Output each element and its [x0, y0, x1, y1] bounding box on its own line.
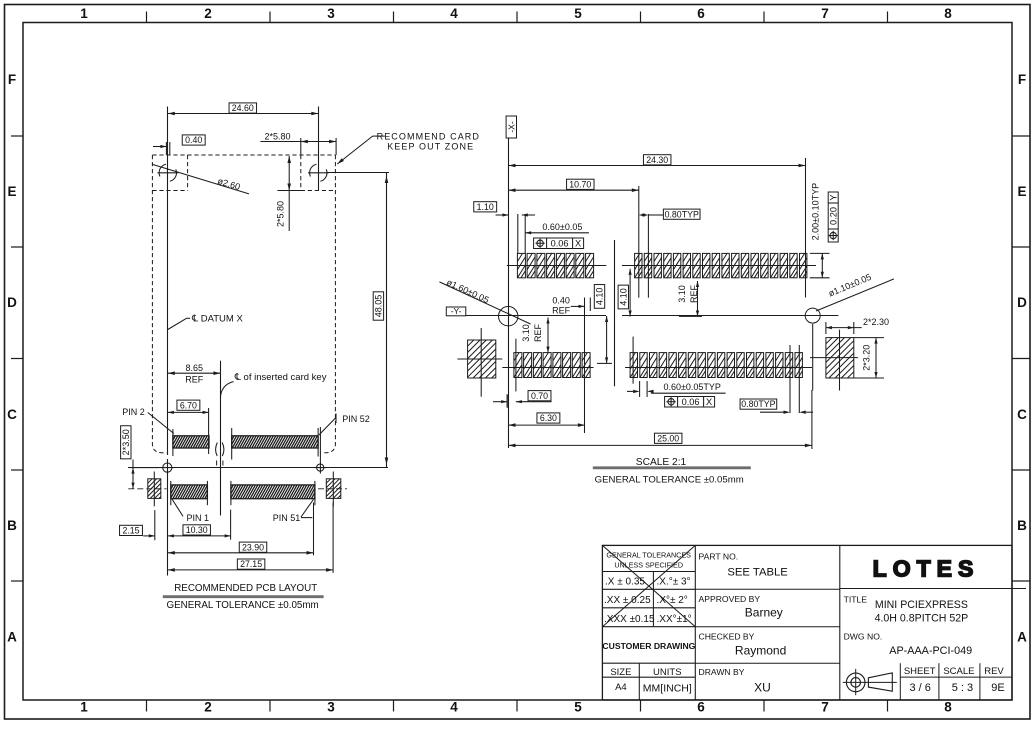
dimension 0.70	[528, 391, 551, 401]
svg-text:3: 3	[327, 6, 335, 21]
left mounting hole	[159, 164, 176, 181]
svg-text:GENERAL TOLERANCE ±0.05mm: GENERAL TOLERANCE ±0.05mm	[166, 600, 318, 611]
svg-text:E: E	[1017, 184, 1026, 199]
dimension 24.60	[168, 113, 318, 115]
svg-text:APPROVED BY: APPROVED BY	[699, 594, 761, 604]
svg-text:10.70: 10.70	[569, 179, 591, 189]
right mounting notch dashed	[300, 155, 302, 191]
card outline dashed right edge with corner	[321, 155, 335, 453]
dimension 24.30	[643, 155, 670, 165]
dimension 23.90	[239, 542, 266, 552]
dimension 48.05	[327, 172, 389, 174]
svg-text:0.40: 0.40	[552, 296, 570, 306]
dimension 0.40	[165, 142, 167, 155]
dimension 10.30	[183, 525, 210, 535]
svg-text:Y: Y	[828, 194, 838, 200]
key centerline right drawing	[614, 240, 616, 386]
svg-text:0.40: 0.40	[185, 135, 202, 145]
svg-text:3: 3	[327, 700, 335, 715]
svg-text:2*5.80: 2*5.80	[276, 201, 286, 227]
svg-text:3 / 6: 3 / 6	[909, 682, 930, 694]
svg-text:AP-AAA-PCI-049: AP-AAA-PCI-049	[889, 645, 972, 657]
bottom-left pad block	[171, 485, 208, 499]
svg-text:.X.°± 3°: .X.°± 3°	[657, 576, 691, 587]
right corner pad square	[326, 479, 341, 499]
dimension 1.10	[474, 202, 497, 212]
column ticks top	[147, 12, 888, 23]
svg-text:27.15: 27.15	[240, 559, 262, 569]
dimension 6.30	[537, 413, 560, 423]
svg-text:24.30: 24.30	[646, 155, 668, 165]
dimension 0.80TYP bottom	[740, 399, 777, 409]
right hole centerline vertical	[318, 107, 320, 191]
svg-text:2: 2	[204, 6, 212, 21]
svg-text:2*2.30: 2*2.30	[863, 317, 889, 327]
left corner pad square	[148, 479, 161, 499]
svg-text:.X°± 2°: .X°± 2°	[657, 595, 688, 606]
bottom-right pad row	[630, 353, 802, 378]
bottom-right pad block	[231, 485, 315, 499]
svg-text:0.60±0.05: 0.60±0.05	[542, 222, 582, 232]
svg-text:4: 4	[450, 6, 458, 21]
svg-text:2*3.20: 2*3.20	[862, 345, 872, 371]
svg-text:A: A	[7, 630, 17, 645]
svg-text:6.70: 6.70	[180, 400, 197, 410]
sheet scale rev cells	[899, 663, 901, 700]
svg-text:5 : 3: 5 : 3	[952, 682, 973, 694]
svg-text:4.10: 4.10	[618, 288, 628, 306]
top pads centerline	[507, 265, 607, 267]
svg-text:DRAWN BY: DRAWN BY	[699, 667, 745, 677]
svg-text:1.10: 1.10	[477, 202, 494, 212]
dimension 0.80TYP top	[663, 209, 700, 219]
bottom pads edge ticks	[515, 339, 517, 392]
svg-text:0.06: 0.06	[551, 238, 569, 248]
title block verticals	[694, 545, 696, 700]
svg-text:0.80TYP: 0.80TYP	[665, 209, 699, 219]
squares centerline dashed	[128, 488, 166, 490]
main centerline right drawing	[466, 315, 606, 317]
row letters right	[1017, 72, 1027, 645]
svg-text:.XXX ±0.15: .XXX ±0.15	[604, 614, 655, 625]
svg-text:.XX ± 0.25: .XX ± 0.25	[604, 595, 651, 606]
svg-text:8.65: 8.65	[186, 363, 204, 373]
svg-text:Raymond: Raymond	[735, 644, 786, 658]
svg-text:℄ DATUM X: ℄ DATUM X	[191, 314, 243, 325]
dimension 25.00	[654, 433, 681, 443]
svg-text:.XX°±1°: .XX°±1°	[657, 614, 692, 625]
tolerance table lines	[602, 571, 695, 573]
svg-text:TITLE: TITLE	[844, 595, 868, 605]
svg-text:6: 6	[697, 700, 705, 715]
svg-text:DWG NO.: DWG NO.	[844, 632, 883, 642]
svg-text:7: 7	[821, 700, 829, 715]
svg-text:PIN 2: PIN 2	[122, 407, 145, 417]
svg-text:E: E	[7, 184, 16, 199]
position tolerance frame bottom	[665, 397, 715, 408]
logo box bottom line to outer border	[840, 588, 1026, 590]
svg-text:℄ of inserted card key: ℄ of inserted card key	[234, 372, 327, 383]
svg-text:F: F	[1018, 72, 1026, 87]
svg-text:C: C	[1017, 407, 1027, 422]
svg-text:2.00±0.10TYP: 2.00±0.10TYP	[811, 183, 821, 240]
svg-text:3.10: 3.10	[521, 324, 531, 342]
svg-text:23.90: 23.90	[242, 542, 264, 552]
svg-text:B: B	[1017, 518, 1027, 533]
svg-text:LOTES: LOTES	[873, 556, 980, 582]
datum -X- label	[506, 116, 516, 138]
pad row edge ticks top	[172, 429, 174, 456]
svg-text:8: 8	[944, 6, 952, 21]
dimension 2.15	[120, 525, 143, 535]
svg-text:2.15: 2.15	[122, 525, 139, 535]
svg-text:ø2.60: ø2.60	[216, 176, 241, 192]
position tolerance frame 0.20 Y rotated	[828, 192, 838, 242]
svg-text:MINI PCIEXPRESS: MINI PCIEXPRESS	[875, 599, 968, 611]
svg-text:KEEP OUT ZONE: KEEP OUT ZONE	[387, 142, 474, 152]
svg-text:-X-: -X-	[507, 121, 517, 133]
datum -Y- label	[446, 307, 466, 316]
dimension 2*3.50	[121, 426, 131, 459]
svg-text:0.60±0.05TYP: 0.60±0.05TYP	[663, 382, 720, 392]
svg-text:1: 1	[80, 700, 88, 715]
tolerance table cross-out	[602, 545, 695, 626]
dimension 6.70	[177, 400, 200, 410]
top-left pad row	[517, 253, 593, 277]
svg-text:X: X	[706, 397, 712, 407]
svg-text:6: 6	[697, 6, 705, 21]
svg-text:CHECKED BY: CHECKED BY	[699, 632, 755, 642]
right datum circle	[805, 308, 820, 323]
svg-text:SEE TABLE: SEE TABLE	[727, 567, 788, 579]
hole diameter 1.10 leader	[816, 279, 894, 311]
svg-text:REF: REF	[185, 374, 204, 384]
svg-text:0.70: 0.70	[531, 391, 548, 401]
svg-text:D: D	[1017, 295, 1027, 310]
svg-text:ø1.10±0.05: ø1.10±0.05	[827, 272, 873, 299]
svg-text:C: C	[7, 407, 17, 422]
row ticks left	[11, 136, 23, 581]
svg-text:5: 5	[574, 6, 582, 21]
card outline dashed top edge	[152, 154, 335, 156]
svg-text:UNLESS SPECIFIED: UNLESS SPECIFIED	[614, 561, 683, 570]
svg-text:25.00: 25.00	[657, 433, 679, 443]
row letters left	[7, 72, 17, 645]
svg-text:MM[INCH]: MM[INCH]	[643, 683, 692, 695]
svg-text:RECOMMENDED PCB LAYOUT: RECOMMENDED PCB LAYOUT	[174, 583, 317, 594]
svg-text:0.06: 0.06	[682, 397, 700, 407]
left position target circle	[163, 463, 172, 472]
title block row lines middle column	[695, 588, 840, 590]
dimension 10.70	[567, 179, 594, 189]
svg-text:4.10: 4.10	[595, 288, 605, 306]
svg-text:Barney: Barney	[745, 606, 783, 620]
svg-text:24.60: 24.60	[232, 103, 254, 113]
scale underline bar	[593, 466, 751, 469]
datum X centerline vertical	[167, 107, 169, 456]
column ticks bottom	[147, 700, 888, 712]
svg-text:ø1.60±0.05: ø1.60±0.05	[445, 277, 490, 305]
svg-text:A: A	[1017, 630, 1027, 645]
svg-text:48.05: 48.05	[374, 295, 384, 318]
svg-text:GENERAL TOLERANCE ±0.05mm: GENERAL TOLERANCE ±0.05mm	[595, 474, 744, 485]
svg-text:2: 2	[204, 700, 212, 715]
dimension 4.10 left	[594, 285, 604, 309]
hole diameter 1.60 leader	[439, 282, 530, 324]
position tolerance frame top-left	[534, 238, 584, 249]
svg-text:1: 1	[80, 6, 88, 21]
svg-text:5: 5	[574, 700, 582, 715]
svg-text:F: F	[8, 72, 16, 87]
svg-text:PIN 52: PIN 52	[342, 414, 370, 424]
left mounting notch dashed	[187, 155, 189, 191]
svg-text:10.30: 10.30	[186, 525, 208, 535]
card key slot dashed	[216, 443, 218, 457]
svg-text:2*5.80: 2*5.80	[264, 131, 290, 141]
title underline bar	[163, 595, 324, 598]
svg-text:REF: REF	[552, 305, 571, 315]
third angle projection symbol	[846, 673, 865, 692]
right position target circle	[317, 464, 324, 471]
dimension 4.10 right	[618, 285, 628, 309]
column numbers top	[80, 6, 952, 21]
svg-text:SIZE: SIZE	[610, 667, 631, 678]
svg-text:D: D	[7, 295, 17, 310]
left solder pad square	[468, 340, 496, 378]
top-right pad row	[635, 253, 807, 277]
svg-text:B: B	[7, 518, 17, 533]
svg-text:UNITS: UNITS	[653, 667, 682, 678]
svg-text:CUSTOMER DRAWING: CUSTOMER DRAWING	[602, 641, 695, 651]
bottom-left pad row	[514, 353, 590, 378]
svg-text:GENERAL TOLERANCES: GENERAL TOLERANCES	[606, 551, 691, 560]
svg-text:XU: XU	[754, 681, 771, 695]
svg-text:4.0H 0.8PITCH 52P: 4.0H 0.8PITCH 52P	[875, 612, 969, 624]
dimension 27.15	[237, 559, 264, 569]
svg-text:RECOMMEND CARD: RECOMMEND CARD	[377, 131, 480, 141]
svg-text:4: 4	[450, 700, 458, 715]
pad row edge ticks bottom	[170, 481, 172, 505]
card key centerline	[220, 361, 222, 516]
svg-text:SCALE: SCALE	[943, 666, 974, 677]
connector centerline horizontal	[128, 467, 388, 469]
title block frame	[602, 545, 1012, 700]
svg-text:7: 7	[821, 6, 829, 21]
svg-text:PIN 51: PIN 51	[273, 513, 301, 523]
right solder pad square	[826, 338, 854, 378]
top-right pad block	[232, 436, 318, 448]
svg-text:6.30: 6.30	[540, 413, 557, 423]
svg-text:2*3.50: 2*3.50	[121, 429, 131, 455]
bottom pads centerline	[502, 367, 593, 369]
svg-text:.X ± 0.35: .X ± 0.35	[605, 576, 645, 587]
svg-text:A4: A4	[615, 682, 627, 693]
datum X vertical line right drawing	[508, 138, 510, 448]
row ticks right	[1012, 136, 1030, 581]
column numbers bottom	[80, 700, 952, 715]
hole diameter 2.60 leader	[152, 164, 249, 194]
card outline dashed left edge with corner	[152, 155, 166, 453]
svg-text:0.80TYP: 0.80TYP	[741, 399, 775, 409]
svg-text:REV: REV	[984, 666, 1004, 677]
top-left pad block	[173, 436, 209, 448]
svg-text:9E: 9E	[991, 682, 1004, 694]
svg-text:PART NO.: PART NO.	[699, 552, 739, 562]
left datum circle	[499, 307, 518, 326]
svg-text:8: 8	[944, 700, 952, 715]
svg-text:PIN 1: PIN 1	[186, 513, 209, 523]
svg-text:0.20: 0.20	[828, 207, 838, 225]
right mounting hole	[310, 164, 327, 181]
svg-text:X: X	[575, 238, 581, 248]
svg-text:SHEET: SHEET	[904, 666, 936, 677]
svg-text:REF: REF	[533, 323, 543, 342]
svg-text:3.10: 3.10	[677, 285, 687, 303]
svg-text:-Y-: -Y-	[451, 306, 462, 316]
